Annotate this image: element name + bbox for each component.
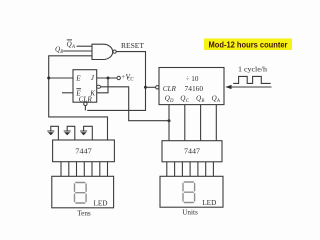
svg-text:A: A <box>71 45 75 50</box>
junction: tens Q net at E input <box>47 77 50 80</box>
wire: flip-flop CLR stub to RESET net <box>84 106 86 111</box>
wire: QC output to units 7447 <box>184 105 186 141</box>
wire: QA output to units 7447 <box>215 105 217 141</box>
svg-text:D: D <box>169 99 174 104</box>
bubble: flip-flop CLR input (bottom edge) <box>84 102 87 105</box>
svg-text:7447: 7447 <box>75 148 92 156</box>
decoder U4: units 7447 <box>162 141 222 162</box>
bubble: 74160 CLR input <box>156 86 159 89</box>
NAND gate U1 (reset decoder) <box>92 44 116 59</box>
svg-text:LED: LED <box>94 199 108 207</box>
svg-text:A: A <box>216 99 220 104</box>
wire: clock input with arrowhead into 74160 <box>225 85 271 89</box>
ground: tens 7447 input D <box>47 126 58 140</box>
svg-text:7447: 7447 <box>184 148 200 156</box>
wire: QD output to units 7447 <box>168 105 170 141</box>
svg-text:LED: LED <box>202 199 216 207</box>
svg-text:RESET: RESET <box>121 42 145 50</box>
svg-text:Mod-12 hours counter: Mod-12 hours counter <box>209 39 289 49</box>
ground: tens 7447 input C <box>64 126 75 140</box>
wire: tens Q net (left vertical) to NAND input 3, down to 7447 input A <box>49 56 108 141</box>
clock waveform <box>233 76 271 83</box>
wire: QB output to units 7447 <box>200 105 202 141</box>
label: Mod-12 hours counter (yellow callout) <box>204 39 292 51</box>
svg-text:CC: CC <box>127 77 134 82</box>
wires: units 7447 outputs to LED (7 segments) <box>167 162 214 177</box>
wire: QB to NAND input 2 <box>63 50 92 52</box>
wire: RESET branch to 74160 CLR bubble <box>146 86 156 88</box>
counter U3: 74160 decade counter <box>159 68 224 105</box>
junction: RESET to 74160 CLR <box>144 86 147 89</box>
display: units LED 7-segment <box>160 176 223 207</box>
wire: flip-flop clock from 74160 QD <box>101 87 169 121</box>
bubble: flip-flop clock input (right edge) <box>97 85 101 88</box>
svg-text:Units: Units <box>182 209 198 217</box>
svg-text:1 cycle/h: 1 cycle/h <box>238 66 267 74</box>
wires: tens 7447 outputs to LED (7 segments) <box>61 162 108 177</box>
node QA-bar label <box>67 40 76 50</box>
wire: J output to +VCC <box>97 77 117 79</box>
svg-text:CLR: CLR <box>163 85 177 93</box>
wire: E input from tens Q net <box>49 77 73 79</box>
svg-text:Tens: Tens <box>77 210 91 218</box>
svg-text:E: E <box>75 75 81 83</box>
svg-text:B: B <box>201 99 204 104</box>
svg-text:74160: 74160 <box>185 85 204 93</box>
svg-text:÷ 10: ÷ 10 <box>186 75 199 83</box>
wire: RESET net (NAND output to CLR inputs) <box>87 52 145 111</box>
decoder U5: tens 7447 <box>53 140 115 162</box>
node QB label <box>55 45 63 55</box>
wire: E-bar input stub <box>62 92 73 94</box>
display: tens LED 7-segment <box>52 176 114 208</box>
flip-flop U2 (tens JK flip-flop) <box>73 70 97 104</box>
terminal +VCC <box>117 73 134 82</box>
ground: tens 7447 input B <box>80 126 92 140</box>
wire: J-K tie vertical and K wire <box>97 78 108 93</box>
junction: QD to flip-flop clock <box>168 119 171 122</box>
junction: J-K tie <box>107 77 110 80</box>
svg-text:B: B <box>60 50 63 55</box>
wire: QA-bar to NAND input 1 <box>77 45 93 47</box>
